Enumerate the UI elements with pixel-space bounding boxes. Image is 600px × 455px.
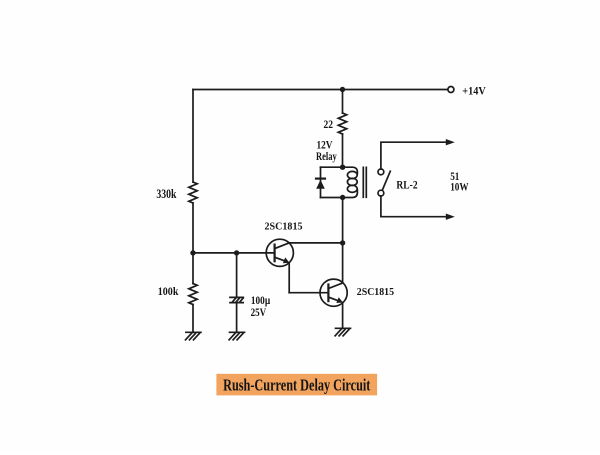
wire left vertical middle (330k to base node) [192, 203, 194, 253]
switch RL-2 top contact [378, 169, 384, 175]
arrow bottom [446, 214, 455, 220]
svg-text:330k: 330k [156, 187, 176, 201]
wire Q1 emitter to Q2 base [289, 292, 328, 294]
wire cap to ground [236, 303, 238, 333]
wire Q1 collector horizontal [289, 242, 342, 244]
switch RL-2 blade [383, 171, 391, 189]
transistor Q2 2SC1815 circle [320, 279, 347, 306]
wire left vertical upper (rail to R 330k) [192, 90, 194, 183]
svg-text:25V: 25V [251, 307, 267, 319]
node junction Q1 collector / relay wire [340, 240, 345, 245]
svg-text:2SC1815: 2SC1815 [357, 286, 395, 298]
relay coil bottom wire [321, 190, 358, 197]
diode D1 (across relay coil) wire left [320, 167, 322, 197]
diode D1 triangle [316, 180, 325, 189]
transistor Q2 base bar [327, 285, 329, 302]
wire rail to R22 [342, 90, 344, 114]
transistor Q1 base bar [274, 245, 276, 262]
diode D1 cathode bar [316, 178, 325, 180]
transistor Q1 2SC1815 circle [266, 239, 293, 266]
node junction left base node [190, 250, 195, 255]
svg-text:RL-2: RL-2 [396, 180, 417, 192]
relay coil K1 top wire [321, 167, 358, 173]
wire base node horizontal to Q1 base [193, 252, 275, 254]
transistor Q2 emitter line with arrow [328, 297, 340, 302]
wire Q1 emitter down [288, 263, 290, 293]
wire 100k to ground [192, 305, 194, 333]
wire top horizontal +14V rail [193, 89, 448, 91]
resistor R 22 [338, 113, 346, 134]
arrow top [446, 139, 455, 145]
wire switch top to arrow [381, 142, 447, 169]
svg-text:100µ: 100µ [251, 295, 271, 307]
resistor 330k [189, 182, 197, 203]
wire R22 to relay [342, 134, 344, 167]
svg-text:+14V: +14V [462, 85, 486, 97]
node junction relay bottom [340, 195, 345, 200]
resistor 100k [189, 284, 197, 305]
transistor Q2 collector line [328, 283, 342, 289]
svg-text:100k: 100k [158, 284, 179, 298]
wire relay bottom to Q2 collector (junction at Q1 collector) [342, 198, 344, 284]
relay coil loops [347, 171, 357, 178]
wire switch bottom to arrow [381, 196, 447, 217]
svg-text:10W: 10W [450, 182, 469, 194]
svg-text:Relay: Relay [316, 151, 337, 163]
terminal +14V open circle [448, 87, 454, 93]
svg-text:2SC1815: 2SC1815 [265, 221, 303, 233]
ground (right, under Q2) [335, 328, 350, 336]
node junction capacitor tap [234, 250, 239, 255]
ground (center, under capacitor) [229, 332, 244, 340]
wire Q2 emitter to ground [342, 303, 344, 329]
capacitor C1 100u electrolytic [230, 297, 243, 302]
wire left vertical lower (node to R 100k) [192, 253, 194, 284]
node junction relay top [340, 165, 345, 170]
ground (left, under 100k) [186, 332, 201, 340]
transistor Q1 collector line [275, 243, 290, 249]
svg-text:22: 22 [324, 117, 334, 131]
wire cap branch vertical [236, 253, 238, 297]
switch RL-2 bottom contact [378, 190, 384, 196]
relay core lines [363, 167, 366, 197]
title box [216, 374, 377, 396]
svg-text:Rush-Current Delay Circuit: Rush-Current Delay Circuit [223, 375, 371, 394]
transistor Q1 emitter line with arrow [275, 257, 288, 262]
svg-text:12V: 12V [317, 139, 334, 151]
node junction rail to R22 [340, 87, 345, 92]
